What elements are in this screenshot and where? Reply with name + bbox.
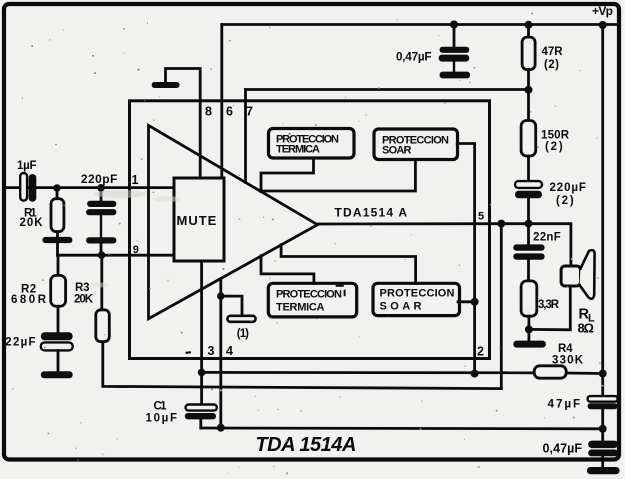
capacitor 0.47uF top stub	[453, 25, 456, 47]
svg-text:2: 2	[477, 345, 484, 359]
junction input / R1	[53, 184, 61, 192]
wire soar upper bottom lead	[261, 160, 416, 192]
svg-text:47R: 47R	[542, 46, 564, 58]
wire pin 9 feedback	[58, 254, 175, 257]
tab pad (1)	[227, 316, 255, 322]
svg-text:PROTECCION: PROTECCION	[276, 289, 342, 301]
wire soar upper right lead pin 5/2	[457, 144, 474, 374]
svg-text:22µF: 22µF	[5, 337, 35, 349]
protection termica box upper	[269, 129, 355, 159]
wire soar lower top lead	[281, 245, 416, 284]
svg-text:C1: C1	[154, 401, 168, 413]
resistor R3	[96, 310, 110, 342]
svg-text:20K: 20K	[20, 217, 44, 229]
capacitor 22nF	[513, 224, 544, 281]
junction C1 / pin4	[217, 424, 225, 432]
wire rail 47uF to 0.47uF	[601, 409, 604, 441]
wire input pin 1	[4, 186, 174, 189]
wire pin 5 output	[318, 224, 571, 266]
junction output / 22nF chain	[525, 220, 533, 228]
wire output node down	[500, 224, 503, 389]
wire C1 bottom stub	[199, 419, 202, 428]
wire bottom rail C1 to right	[201, 427, 603, 431]
svg-text:TDA 1514A: TDA 1514A	[255, 434, 356, 456]
bar under R1	[43, 237, 73, 243]
svg-text:330K: 330K	[552, 355, 584, 367]
capacitor 0.47uF top plates	[439, 47, 471, 79]
junction top rail / 0.47uF	[450, 21, 458, 29]
svg-text:R3: R3	[75, 282, 90, 294]
svg-text:PROTECCION: PROTECCION	[380, 288, 455, 300]
resistor 3.3R	[521, 281, 537, 341]
wire pin 3 bootstrap horizontal	[202, 371, 535, 374]
junction pin2 wire / bootstrap wire	[471, 370, 479, 378]
ground bar 3.3R	[513, 341, 546, 348]
svg-text:TDA1514 A: TDA1514 A	[335, 206, 409, 220]
capacitor 1uF input	[20, 173, 36, 202]
svg-text:47µF: 47µF	[548, 398, 581, 411]
protection box texts	[276, 134, 455, 314]
wire R4 right lead	[566, 372, 603, 375]
speaker RL horn	[580, 250, 595, 299]
svg-text:0,47µF: 0,47µF	[396, 51, 432, 64]
svg-text:6: 6	[226, 105, 233, 119]
svg-text:680R: 680R	[11, 294, 47, 306]
ground bar bottom right	[587, 467, 620, 474]
junction pin4 / tab	[217, 292, 225, 300]
svg-text:TERMICA: TERMICA	[276, 144, 320, 156]
speaker RL box	[561, 266, 580, 286]
capacitor 220uF	[515, 181, 542, 224]
junction pin3 / bootstrap wire	[198, 369, 206, 377]
wire speaker bottom	[529, 286, 570, 330]
resistor R1	[51, 188, 64, 237]
capacitor C1	[185, 405, 217, 420]
svg-text:TERMICA: TERMICA	[276, 302, 325, 314]
svg-text:(2): (2)	[556, 195, 574, 207]
wire termica lower lead	[261, 256, 314, 283]
svg-text:0,47µF: 0,47µF	[543, 442, 583, 456]
junction soar lower / pin2 wire	[471, 298, 479, 306]
wire pin 4 vertical	[219, 279, 222, 428]
junction pin7 wire / 47R-150R	[525, 86, 533, 94]
capacitor 22uF	[41, 332, 73, 371]
svg-text:1µF: 1µF	[17, 160, 37, 172]
wire pin 3 vertical	[200, 262, 203, 405]
protection soar box upper	[374, 129, 458, 160]
stray macron mark lower termica	[336, 285, 344, 287]
wire feedback bottom horizontal R3	[103, 342, 502, 389]
junction top rail / +Vp rail	[599, 21, 607, 29]
faint scan smudges (decorative)	[90, 190, 181, 288]
junction output / feedback	[497, 220, 505, 228]
svg-text:SOAR: SOAR	[382, 145, 412, 157]
svg-text:220pF: 220pF	[81, 172, 118, 186]
capacitor 220pF	[86, 188, 116, 256]
junction R4 / +Vp rail	[599, 370, 607, 378]
wire pin 6 vertical	[220, 25, 223, 179]
svg-text:(2): (2)	[544, 59, 559, 71]
op-amp U1 triangle	[149, 125, 318, 318]
junction bottom wire / rail	[599, 425, 607, 433]
svg-text:+Vp: +Vp	[592, 4, 613, 18]
junction pin9 wire / R3	[98, 251, 106, 259]
resistor 47R	[522, 25, 535, 90]
svg-text:(1): (1)	[237, 328, 249, 340]
svg-text:5: 5	[478, 211, 484, 223]
stray dash mark	[185, 351, 191, 354]
svg-text:150R: 150R	[541, 129, 570, 141]
resistor 150R	[521, 90, 536, 182]
wire +Vp top rail horizontal	[222, 23, 616, 26]
wire pin 8 to ground	[166, 69, 201, 179]
wire R1 bar to pin9	[56, 243, 59, 255]
IC boundary box	[130, 101, 490, 359]
capacitor 47uF	[588, 396, 618, 409]
svg-text:20K: 20K	[74, 293, 94, 305]
resistor R4 330K body	[534, 366, 566, 378]
svg-text:1: 1	[132, 173, 139, 187]
junction input / 220pF	[97, 184, 105, 192]
ground bar top	[152, 82, 180, 88]
protection termica box lower	[268, 283, 356, 317]
svg-text:3: 3	[208, 344, 215, 358]
capacitor 0.47uF bottom plates	[588, 441, 618, 457]
wire soar lower right lead	[458, 300, 475, 303]
svg-text:9: 9	[133, 244, 139, 256]
svg-text:220µF: 220µF	[550, 182, 586, 194]
svg-text:R4: R4	[558, 343, 573, 355]
svg-text:MUTE: MUTE	[177, 213, 218, 228]
svg-text:8Ω: 8Ω	[578, 321, 594, 336]
svg-text:7: 7	[246, 105, 253, 119]
wire R3 top	[100, 255, 103, 310]
svg-text:22nF: 22nF	[533, 232, 561, 244]
junction top rail / 47R	[525, 21, 533, 29]
ground bar 22uF	[41, 371, 73, 378]
capacitor 0.47uF mid stub	[453, 62, 455, 72]
wire termica upper lead	[261, 158, 314, 191]
junction 3.3R / speaker return	[525, 325, 533, 333]
svg-text:(2): (2)	[545, 141, 563, 153]
wire pin 7 vertical	[244, 90, 247, 183]
svg-text:3,3R: 3,3R	[538, 299, 560, 311]
svg-text:8: 8	[205, 105, 212, 119]
resistor R2	[51, 255, 66, 332]
wire 0.47uF bottom stub	[601, 456, 604, 467]
wire pin 7 horizontal to 47R junction	[246, 88, 529, 91]
svg-text:10µF: 10µF	[146, 413, 178, 425]
protection soar box lower	[373, 283, 460, 315]
wire tab stub	[221, 296, 242, 316]
wire +Vp rail vertical	[601, 25, 604, 397]
svg-text:4: 4	[226, 344, 233, 358]
MUTE box	[174, 178, 224, 261]
